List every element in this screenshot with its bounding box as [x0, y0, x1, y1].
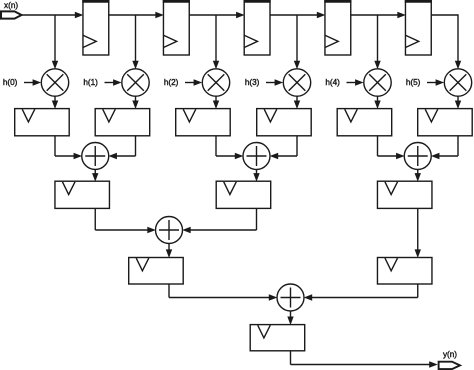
svg-text:y(n): y(n): [443, 350, 457, 359]
svg-text:x(n): x(n): [4, 1, 18, 10]
svg-text:h(1): h(1): [83, 78, 98, 87]
svg-text:h(5): h(5): [406, 78, 421, 87]
svg-text:h(2): h(2): [164, 78, 179, 87]
svg-text:h(3): h(3): [245, 78, 260, 87]
svg-text:h(4): h(4): [325, 78, 340, 87]
svg-text:h(0): h(0): [3, 78, 18, 87]
